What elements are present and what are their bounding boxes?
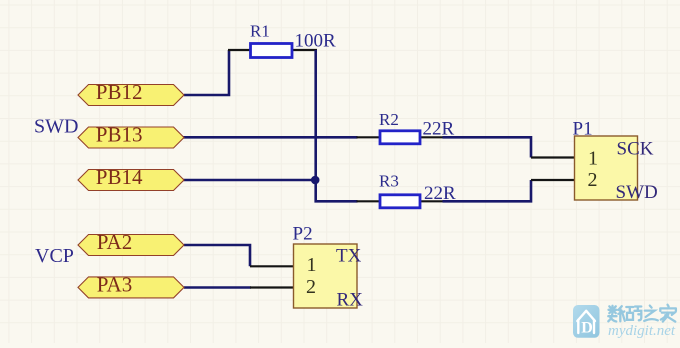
pin R1.2 [292, 49, 317, 51]
svg-text:2: 2 [588, 169, 598, 191]
pin R1.1 [228, 49, 250, 51]
resistor R2 [380, 131, 420, 144]
wire PB13 to R2 [183, 136, 358, 139]
wire PB14 to junction [183, 179, 316, 182]
svg-text:PA3: PA3 [97, 273, 132, 297]
pin P1.2 [531, 179, 575, 181]
svg-text:RX: RX [337, 290, 364, 311]
wire PA2 to P2 pin1 [184, 245, 250, 266]
svg-text:1: 1 [588, 148, 598, 170]
pin P2.2 [250, 286, 294, 288]
svg-text:TX: TX [336, 246, 362, 267]
svg-text:P1: P1 [573, 118, 593, 139]
pin R2.1 [357, 136, 380, 138]
net label PB14 [78, 165, 184, 190]
svg-text:R3: R3 [379, 171, 399, 190]
wire PB12 to R1 [184, 50, 229, 95]
wire R2 to P1 pin1 [443, 137, 532, 157]
pin R3.2 [421, 200, 444, 202]
svg-text:PB13: PB13 [96, 123, 143, 147]
svg-text:PB14: PB14 [96, 165, 143, 189]
svg-text:1: 1 [307, 254, 317, 276]
watermark logo icon [573, 305, 600, 338]
svg-text:SWD: SWD [616, 182, 658, 203]
svg-text:2: 2 [306, 276, 316, 298]
wire R3 to P1 pin2 [443, 180, 532, 201]
svg-text:SWD: SWD [34, 115, 78, 137]
pin R3.1 [357, 200, 380, 202]
net label PB13 [78, 123, 184, 148]
svg-text:P2: P2 [293, 224, 313, 245]
svg-text:R2: R2 [379, 110, 399, 129]
svg-text:D: D [581, 320, 593, 337]
svg-text:100R: 100R [295, 31, 337, 52]
wire PA3 to P2 pin2 [184, 286, 251, 289]
resistor R3 [380, 195, 420, 208]
svg-text:22R: 22R [424, 183, 456, 204]
svg-text:PA2: PA2 [97, 230, 132, 254]
svg-text:PB12: PB12 [96, 80, 143, 104]
svg-text:SCK: SCK [617, 138, 654, 159]
junction dot [311, 176, 320, 185]
resistor R1 [251, 44, 293, 58]
pin R2.2 [421, 136, 444, 138]
svg-text:VCP: VCP [35, 245, 74, 267]
svg-text:22R: 22R [423, 119, 455, 140]
net label PA3 [78, 273, 184, 298]
watermark text shuma zhijia [608, 305, 676, 322]
net label PB12 [78, 80, 184, 105]
connector P1 [575, 136, 638, 200]
pin P1.1 [531, 156, 575, 158]
svg-text:mydigit.net: mydigit.net [608, 323, 676, 339]
svg-text:R1: R1 [250, 22, 270, 41]
wire R1 to R3 net [316, 50, 358, 201]
net label PA2 [78, 230, 184, 255]
pin P2.1 [250, 265, 294, 267]
connector P2 [294, 244, 358, 308]
